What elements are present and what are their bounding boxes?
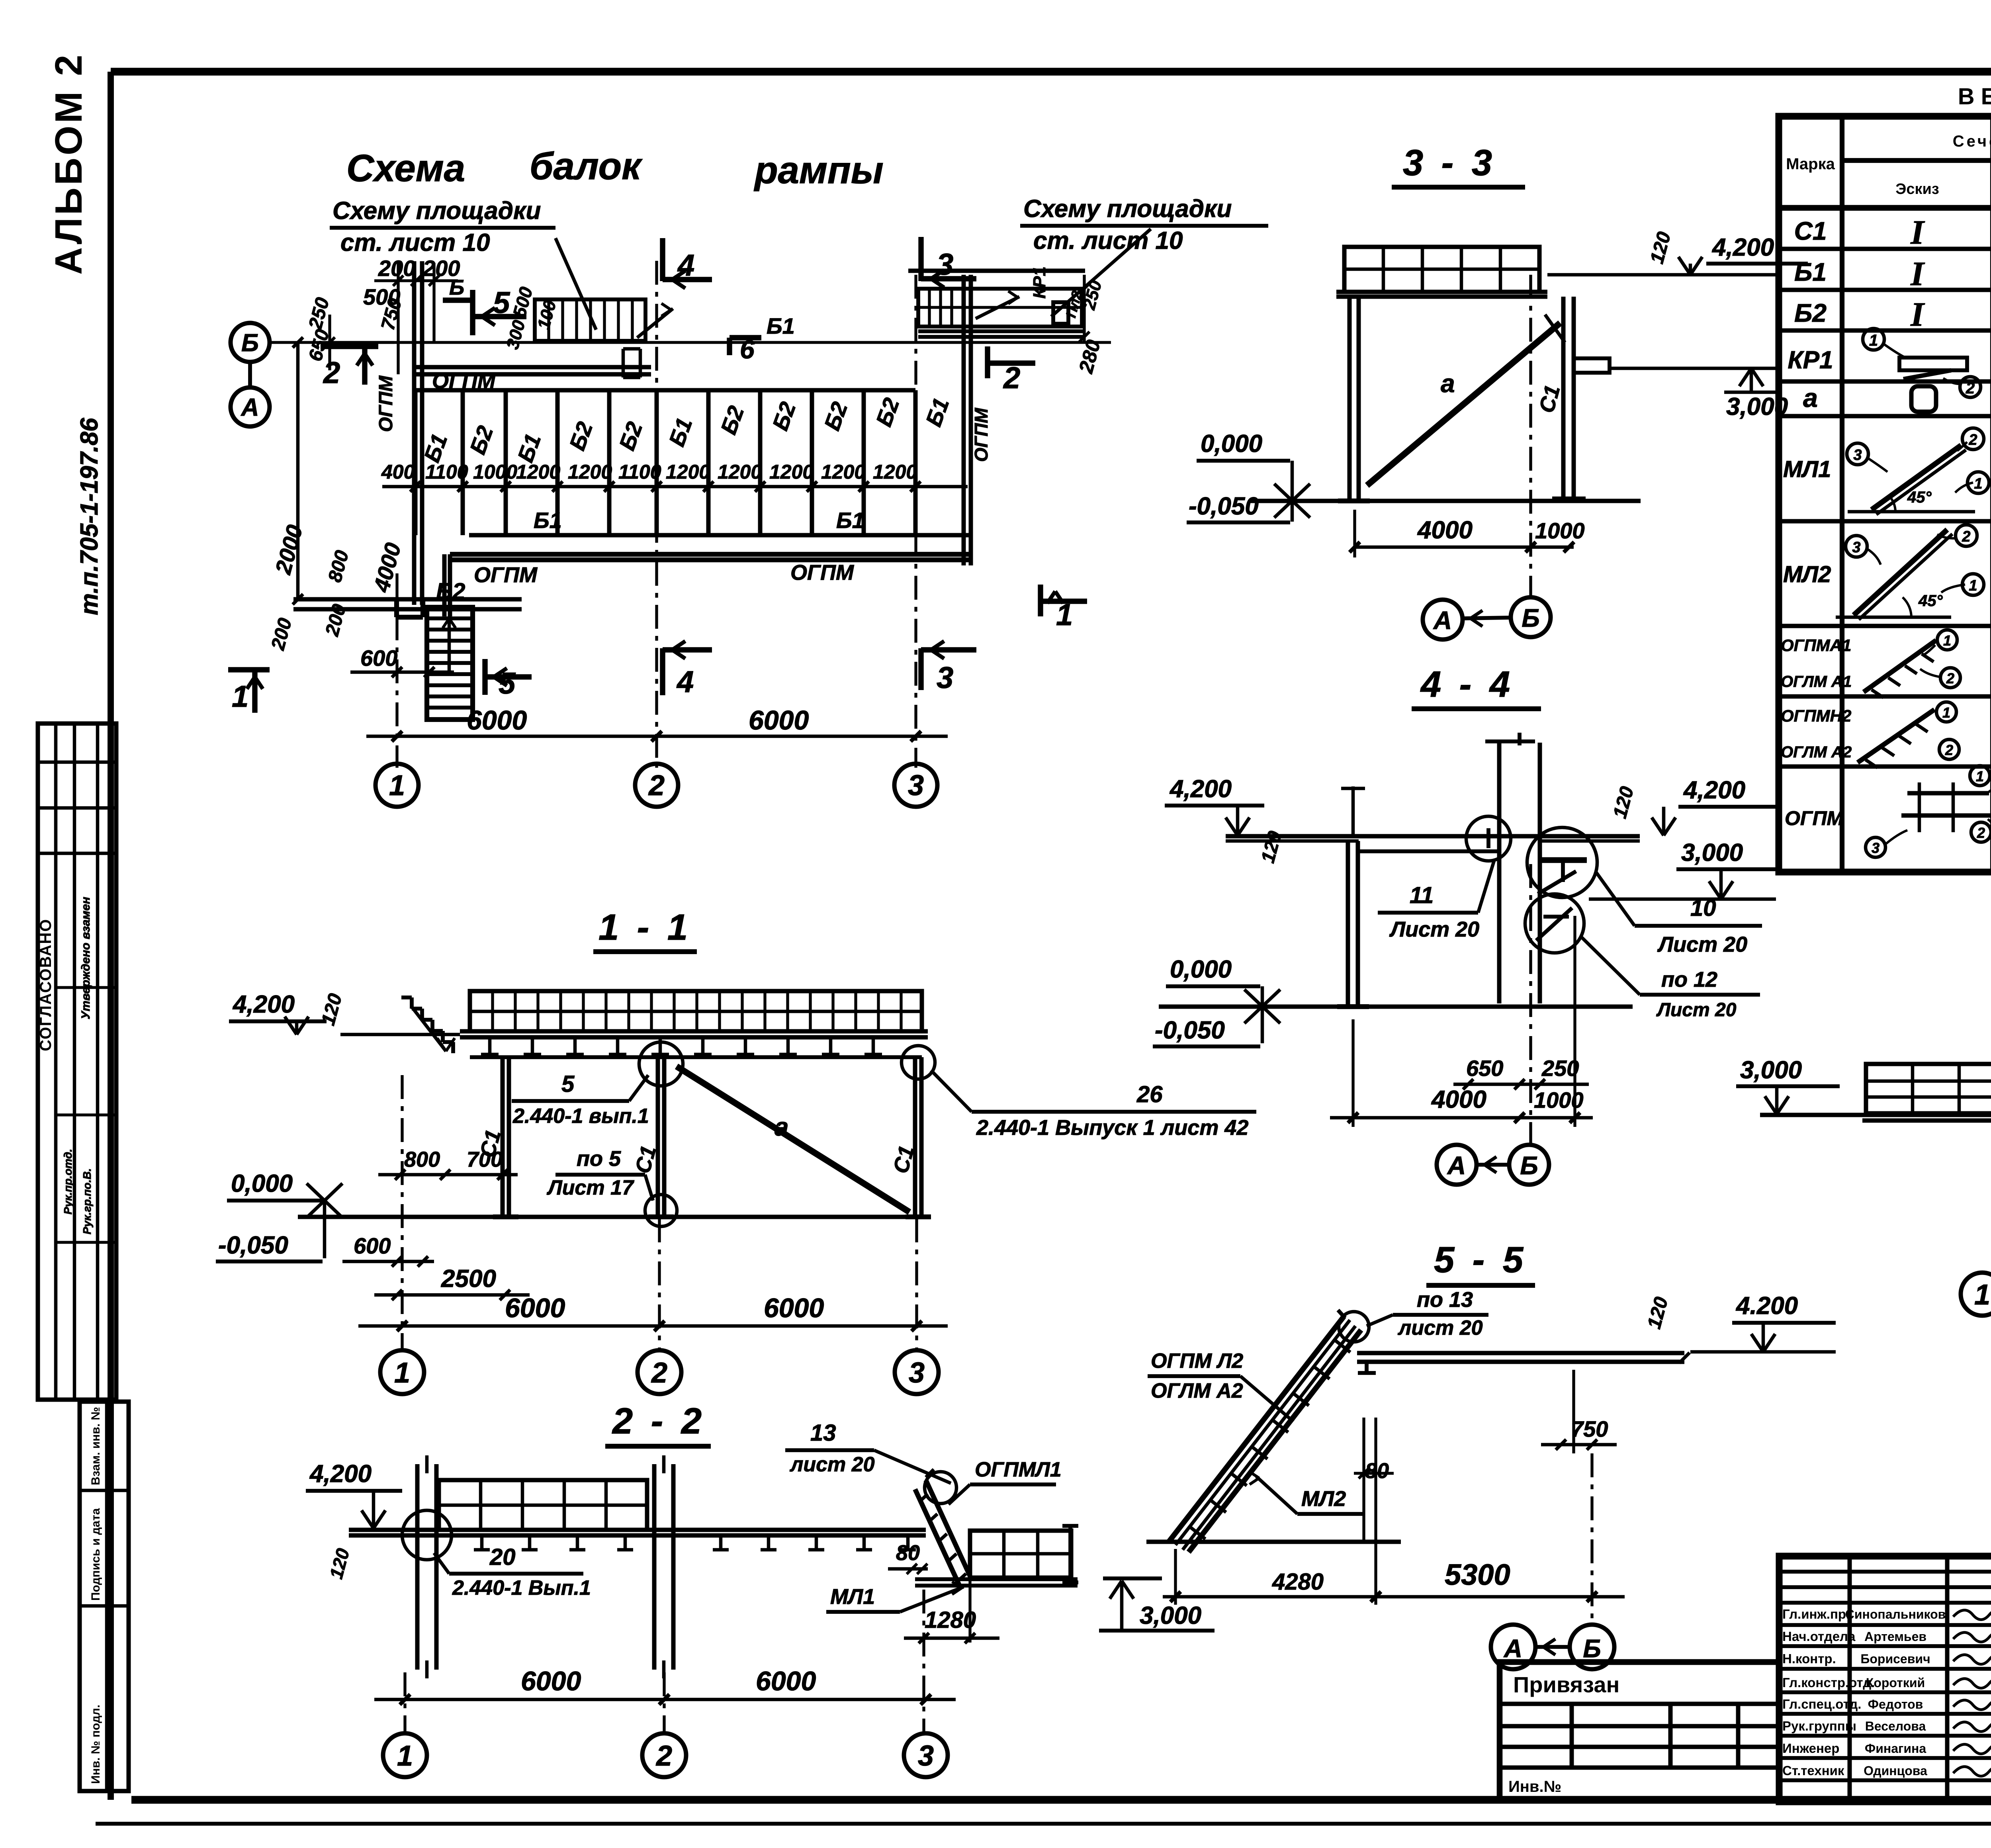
svg-text:Лист 20: Лист 20: [1657, 933, 1747, 956]
svg-text:1200: 1200: [873, 461, 917, 483]
svg-text:Б: Б: [449, 276, 464, 299]
svg-text:1: 1: [394, 1357, 410, 1389]
svg-text:ОГПМ: ОГПМ: [474, 563, 538, 587]
svg-text:5: 5: [493, 286, 510, 320]
svg-text:ОГПМ Л2: ОГПМ Л2: [1151, 1349, 1243, 1373]
section 4-4 rack column: [1497, 743, 1502, 1003]
svg-text:МЛ2: МЛ2: [1301, 1487, 1346, 1511]
svg-text:6000: 6000: [521, 1666, 581, 1696]
svg-text:1: 1: [1056, 598, 1073, 632]
section 2-2 level 3,000 right: [1110, 1581, 1122, 1599]
svg-text:2: 2: [323, 356, 340, 390]
svg-text:МЛ2: МЛ2: [1783, 561, 1831, 587]
svg-text:80: 80: [896, 1541, 920, 1565]
svg-text:ОГПМА1: ОГПМА1: [1781, 636, 1851, 655]
svg-text:Федотов: Федотов: [1868, 1697, 1923, 1711]
svg-text:А: А: [1503, 1634, 1522, 1663]
section 3-3 left column: [1348, 297, 1352, 501]
svg-text:2 - 2: 2 - 2: [612, 1401, 706, 1441]
svg-text:МЛ1: МЛ1: [830, 1585, 875, 1609]
svg-text:4: 4: [676, 665, 694, 699]
svg-text:КР1: КР1: [1030, 266, 1049, 299]
svg-text:по 12: по 12: [1661, 968, 1717, 991]
section 6-6 left level 3,000: [1765, 1096, 1777, 1114]
svg-text:КР1: КР1: [1788, 346, 1833, 374]
section 3-3 right column С1: [1561, 297, 1566, 499]
svg-text:1 - 1: 1 - 1: [598, 907, 692, 948]
section 1-1 columns С1: [501, 1057, 505, 1217]
svg-text:650: 650: [1466, 1056, 1503, 1081]
svg-text:5: 5: [561, 1071, 575, 1097]
svg-text:Утверждено взамен: Утверждено взамен: [79, 897, 92, 1019]
section 2-2 deck: [349, 1528, 926, 1532]
svg-text:по 13: по 13: [1417, 1288, 1473, 1312]
svg-text:250: 250: [1541, 1056, 1579, 1081]
svg-text:Б1: Б1: [534, 508, 562, 533]
section 2-2 right stair: [926, 1480, 970, 1576]
svg-text:-0,050: -0,050: [218, 1232, 288, 1259]
svg-text:Борисевич: Борисевич: [1860, 1652, 1930, 1666]
svg-text:ОГПМН2: ОГПМН2: [1781, 706, 1851, 725]
svg-text:Нач.отдела: Нач.отдела: [1782, 1629, 1856, 1644]
svg-text:6000: 6000: [756, 1666, 816, 1696]
svg-text:1200: 1200: [769, 461, 814, 483]
svg-text:4000: 4000: [1417, 516, 1473, 544]
svg-text:6: 6: [740, 334, 755, 364]
svg-text:4: 4: [677, 248, 694, 282]
svg-text:Б2: Б2: [1794, 299, 1827, 327]
section 3-3 platform grating: [1344, 247, 1539, 292]
svg-text:Инженер: Инженер: [1782, 1741, 1839, 1756]
svg-text:Лист 20: Лист 20: [1389, 917, 1479, 941]
section 2-2 right platform: [970, 1531, 1071, 1578]
svg-text:ОГПМ: ОГПМ: [790, 561, 854, 585]
svg-text:Гл.инж.пр.: Гл.инж.пр.: [1782, 1607, 1850, 1621]
svg-text:0,000: 0,000: [1201, 430, 1262, 458]
svg-text:4 - 4: 4 - 4: [1420, 664, 1514, 705]
svg-text:3: 3: [1852, 539, 1860, 556]
svg-text:2: 2: [1977, 825, 1985, 841]
svg-text:5300: 5300: [1445, 1558, 1510, 1591]
plan top OGPM beam: [414, 365, 651, 370]
section 5-5 stair band: [1169, 1316, 1344, 1542]
plan section mark 4 bottom: [660, 648, 665, 695]
svg-text:750: 750: [1571, 1416, 1608, 1441]
plan right platform with КР1: [908, 269, 1085, 273]
svg-text:А: А: [1447, 1151, 1466, 1180]
svg-text:Веселова: Веселова: [1865, 1719, 1926, 1733]
svg-text:1100: 1100: [425, 461, 468, 483]
svg-text:балок: балок: [530, 145, 643, 188]
plan grid circles 1 2 3: [376, 764, 419, 807]
svg-text:Б1: Б1: [767, 313, 795, 338]
svg-text:4,200: 4,200: [1711, 234, 1774, 261]
svg-text:4,200: 4,200: [232, 991, 295, 1018]
svg-text:1200: 1200: [718, 461, 762, 483]
svg-text:2: 2: [1968, 432, 1977, 448]
svg-text:3 - 3: 3 - 3: [1403, 143, 1496, 183]
svg-text:Привязан: Привязан: [1513, 1672, 1619, 1697]
svg-text:4,200: 4,200: [1683, 776, 1745, 804]
svg-text:Одинцова: Одинцова: [1864, 1764, 1927, 1778]
svg-text:Б: Б: [1583, 1634, 1601, 1663]
svg-text:1: 1: [1869, 332, 1878, 349]
svg-text:Рук.гр.по.В.: Рук.гр.по.В.: [81, 1168, 93, 1234]
svg-text:ВЕДОМОСТЬ ЭЛЕМЕНТОВ: ВЕДОМОСТЬ ЭЛЕМЕНТОВ: [1958, 84, 1991, 110]
left margin inventory strip: [80, 1402, 129, 1791]
section 1-1 detail circles: [639, 1042, 683, 1086]
svg-text:1: 1: [1943, 632, 1951, 649]
svg-text:0,000: 0,000: [1170, 956, 1232, 983]
svg-text:лист 20: лист 20: [1397, 1316, 1483, 1340]
svg-text:по 5: по 5: [577, 1147, 621, 1171]
svg-text:Финагина: Финагина: [1865, 1741, 1926, 1756]
plan section mark 3 bottom: [918, 648, 923, 690]
svg-text:4.200: 4.200: [1735, 1292, 1798, 1320]
plan section mark 2 left: [321, 344, 378, 349]
svg-text:1: 1: [232, 680, 248, 714]
svg-text:а: а: [1441, 369, 1455, 398]
svg-text:Гл.констр.отд.: Гл.констр.отд.: [1782, 1675, 1875, 1690]
svg-text:Эскиз: Эскиз: [1895, 181, 1939, 198]
svg-text:3,000: 3,000: [1140, 1602, 1201, 1629]
section 3-3 level 3,000: [1610, 367, 1780, 370]
svg-text:11: 11: [1410, 882, 1434, 908]
svg-text:2: 2: [648, 770, 665, 802]
title block: [1779, 1556, 1991, 1802]
svg-text:1: 1: [1974, 475, 1982, 492]
svg-text:2.440-1 Выпуск 1 лист 42: 2.440-1 Выпуск 1 лист 42: [976, 1116, 1248, 1140]
section 3-3 axis circles А Б: [1529, 275, 1532, 597]
svg-text:2: 2: [1003, 361, 1020, 395]
svg-text:Схему площадки: Схему площадки: [1023, 195, 1232, 223]
section 1-1 left stair: [401, 995, 412, 999]
svg-text:4280: 4280: [1272, 1569, 1324, 1595]
svg-text:ОГПМ: ОГПМ: [971, 407, 992, 462]
svg-text:2: 2: [651, 1357, 667, 1389]
section 4-4 detail circles: [1466, 816, 1511, 861]
svg-text:5: 5: [499, 667, 516, 700]
svg-text:Лист 20: Лист 20: [1656, 999, 1737, 1021]
svg-text:1200: 1200: [568, 461, 612, 483]
svg-text:3: 3: [909, 1357, 925, 1389]
plan section mark 2 right: [985, 346, 990, 378]
svg-text:Н.контр.: Н.контр.: [1782, 1651, 1836, 1666]
svg-text:2: 2: [1945, 742, 1953, 758]
plan section mark 3 top: [918, 237, 923, 281]
plan lower beam Б1/ОГПМ: [469, 533, 971, 538]
svg-text:2: 2: [1962, 528, 1970, 545]
left margin agreement strip: [38, 724, 116, 1400]
plan beam grid Б1/Б2: [415, 388, 915, 393]
section 5-5 axis circles А Б: [1491, 1625, 1535, 1669]
section 2-2 railing band: [439, 1480, 647, 1530]
svg-text:ОГПМ: ОГПМ: [376, 375, 397, 432]
svg-text:Б: Б: [1522, 604, 1539, 632]
plan grid axis lines: [395, 573, 398, 768]
svg-text:Подпись и дата: Подпись и дата: [89, 1508, 102, 1601]
section 1-1 platform band: [470, 991, 922, 1031]
plan left landing beam: [293, 597, 522, 602]
svg-text:3: 3: [1853, 447, 1862, 463]
svg-text:АЛЬБОМ 2: АЛЬБОМ 2: [47, 52, 90, 275]
svg-text:3: 3: [918, 1740, 934, 1772]
svg-text:рампы: рампы: [753, 149, 884, 192]
svg-text:3: 3: [908, 770, 924, 802]
svg-text:200: 200: [378, 256, 415, 281]
svg-text:3,000: 3,000: [1681, 839, 1743, 866]
section 5-5 ground and bottom dims: [1146, 1540, 1401, 1544]
svg-text:МЛ1: МЛ1: [1783, 456, 1831, 482]
svg-text:А: А: [1433, 606, 1452, 635]
section 4-4 beam: [1226, 834, 1640, 839]
svg-text:ст. лист 10: ст. лист 10: [1033, 227, 1183, 254]
plan section mark 5 bottom: [482, 659, 487, 695]
svg-text:5 - 5: 5 - 5: [1434, 1240, 1527, 1280]
svg-text:I: I: [1910, 254, 1925, 293]
plan section mark 1 right: [1038, 585, 1043, 616]
svg-text:Ст.техник: Ст.техник: [1782, 1763, 1844, 1778]
svg-text:1: 1: [397, 1740, 413, 1772]
svg-text:2.440-1 Вып.1: 2.440-1 Вып.1: [452, 1576, 591, 1600]
section 1-1 diagonal brace a: [677, 1066, 909, 1212]
sheet frame: [111, 68, 1991, 76]
svg-text:400: 400: [381, 461, 415, 483]
svg-text:1: 1: [1976, 768, 1984, 784]
svg-text:3,000: 3,000: [1740, 1056, 1802, 1084]
svg-text:Б2: Б2: [436, 579, 465, 604]
svg-text:3: 3: [937, 661, 953, 695]
svg-text:600: 600: [354, 1233, 391, 1258]
svg-text:1000: 1000: [473, 461, 517, 483]
svg-text:Рук.пр.отд.: Рук.пр.отд.: [62, 1149, 74, 1214]
svg-text:13: 13: [810, 1420, 836, 1446]
svg-text:а: а: [1803, 383, 1818, 413]
svg-text:Взам. инв. №: Взам. инв. №: [89, 1407, 102, 1485]
plan section mark 5 top: [470, 290, 475, 335]
plan section mark 1 left: [228, 667, 270, 672]
svg-text:-0,050: -0,050: [1189, 493, 1259, 520]
svg-text:Марка: Марка: [1786, 155, 1835, 173]
section 2-2 columns: [415, 1464, 420, 1670]
svg-text:а: а: [774, 1113, 789, 1141]
svg-text:Рук.группы: Рук.группы: [1782, 1719, 1856, 1733]
svg-text:1100: 1100: [618, 461, 661, 483]
svg-text:Гл.спец.отд.: Гл.спец.отд.: [1782, 1697, 1861, 1711]
svg-text:4,200: 4,200: [1169, 775, 1232, 803]
svg-text:Б: Б: [241, 329, 259, 357]
svg-text:Короткий: Короткий: [1866, 1676, 1925, 1690]
plan top small platform: [535, 299, 645, 341]
svg-text:600: 600: [360, 645, 397, 671]
svg-text:800: 800: [404, 1148, 440, 1171]
svg-text:Б: Б: [1520, 1151, 1538, 1180]
svg-text:2: 2: [1946, 670, 1954, 686]
svg-text:4,200: 4,200: [309, 1460, 372, 1488]
svg-text:Артемьев: Артемьев: [1864, 1629, 1926, 1644]
svg-text:ОГЛМ А1: ОГЛМ А1: [1781, 673, 1852, 690]
svg-text:3: 3: [1872, 840, 1880, 856]
svg-text:СОГЛАСОВАНО: СОГЛАСОВАНО: [37, 919, 55, 1051]
svg-text:700: 700: [467, 1148, 503, 1171]
section 3-3 console: [1574, 358, 1610, 373]
svg-text:2: 2: [1966, 379, 1975, 397]
svg-text:1200: 1200: [516, 461, 560, 483]
svg-text:ст. лист 10: ст. лист 10: [340, 229, 490, 256]
svg-text:2.440-1 вып.1: 2.440-1 вып.1: [512, 1105, 649, 1128]
svg-text:Инв.№: Инв.№: [1508, 1778, 1561, 1795]
svg-text:I: I: [1910, 213, 1925, 251]
svg-text:1000: 1000: [1535, 518, 1585, 543]
section 4-4 axis circles А Б: [1529, 864, 1532, 1145]
section 1-1 deck supports: [488, 1037, 492, 1054]
svg-text:Б1: Б1: [836, 508, 864, 533]
section 6-6 platform: [1866, 1064, 1991, 1113]
plan staircase (bottom) Б2: [427, 607, 473, 720]
svg-text:6000: 6000: [505, 1293, 565, 1323]
svg-text:Схема: Схема: [346, 147, 465, 190]
svg-text:ОГЛМ А2: ОГЛМ А2: [1781, 743, 1852, 761]
svg-text:1: 1: [1942, 704, 1950, 721]
svg-text:6000: 6000: [749, 705, 809, 735]
svg-text:ОГПМЛ1: ОГПМЛ1: [975, 1458, 1062, 1481]
svg-text:ОГПМ: ОГПМ: [1785, 807, 1844, 829]
svg-text:1200: 1200: [821, 461, 865, 483]
plan section mark 4 top: [660, 238, 665, 281]
svg-text:4000: 4000: [1431, 1086, 1486, 1113]
svg-text:А: А: [241, 394, 259, 421]
plan left dims 4000/2000: [296, 342, 300, 599]
svg-text:6000: 6000: [467, 705, 527, 735]
svg-text:45°: 45°: [1907, 489, 1932, 506]
svg-text:лист 20: лист 20: [789, 1453, 875, 1476]
svg-text:Инв. № подл.: Инв. № подл.: [89, 1705, 102, 1784]
svg-text:Схему площадки: Схему площадки: [332, 197, 541, 225]
section 1-1 grid circles: [401, 1075, 403, 1350]
svg-text:0,000: 0,000: [231, 1170, 293, 1197]
svg-text:-0,050: -0,050: [1155, 1017, 1225, 1044]
section 3-3 diagonal brace a: [1367, 323, 1560, 485]
section 5-5 walkway: [1339, 1312, 1369, 1342]
svg-text:С1: С1: [1794, 217, 1827, 245]
svg-text:26: 26: [1136, 1081, 1163, 1107]
svg-text:20: 20: [489, 1544, 516, 1570]
section 4-4 left column: [1346, 841, 1350, 1007]
svg-text:ОГЛМ А2: ОГЛМ А2: [1151, 1379, 1243, 1402]
svg-text:3,000: 3,000: [1726, 393, 1788, 420]
svg-text:45°: 45°: [1918, 592, 1943, 610]
section 3-3 bottom dims 4000 1000: [1355, 546, 1574, 549]
svg-text:2: 2: [655, 1740, 672, 1772]
svg-text:Сечение: Сечение: [1953, 133, 1991, 150]
svg-text:1280: 1280: [925, 1607, 976, 1633]
svg-text:3: 3: [937, 248, 953, 282]
svg-text:1: 1: [1974, 1279, 1990, 1311]
svg-text:т.п.705-1-197.86: т.п.705-1-197.86: [76, 418, 103, 615]
section 2-2 detail circle and leader 20: [402, 1510, 452, 1560]
svg-text:Лист 17: Лист 17: [546, 1176, 634, 1199]
plan left vertical OGPM beam: [412, 261, 417, 605]
svg-text:2500: 2500: [441, 1265, 496, 1293]
svg-text:I: I: [1910, 295, 1925, 333]
svg-text:1200: 1200: [666, 461, 710, 483]
plan axis circles Б and А: [231, 323, 270, 362]
svg-text:1: 1: [389, 770, 405, 802]
svg-text:6000: 6000: [764, 1293, 824, 1323]
svg-text:1: 1: [1969, 577, 1977, 594]
svg-text:Синопальников: Синопальников: [1845, 1607, 1946, 1621]
